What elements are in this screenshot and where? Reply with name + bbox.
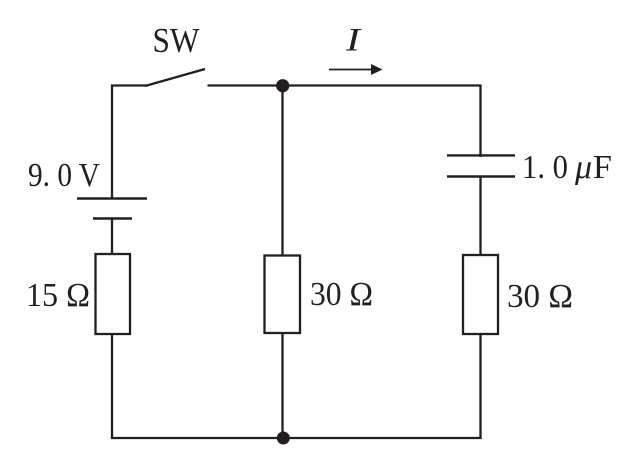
svg-text:F: F <box>593 149 612 186</box>
wire capacitor to resistor R3 <box>479 177 481 257</box>
svg-text:30 Ω: 30 Ω <box>507 278 573 315</box>
capacitor C 1.0μF plates <box>447 155 515 176</box>
svg-text:15 Ω: 15 Ω <box>26 277 90 314</box>
resistor R2 30Ω middle <box>265 256 301 334</box>
svg-text:9. 0 V: 9. 0 V <box>28 157 100 194</box>
svg-text:SW: SW <box>153 21 200 60</box>
wire top-left horizontal (left vertical to switch hinge) <box>112 86 146 199</box>
wire middle branch top (junction to R2) <box>281 86 283 257</box>
node top junction <box>276 79 289 92</box>
svg-text:I: I <box>345 23 363 59</box>
node bottom junction <box>277 432 290 445</box>
label 1.0 μF <box>522 149 612 186</box>
wire battery to resistor R1 <box>111 219 113 256</box>
wire R3 bottom to bottom rail <box>479 334 481 439</box>
current arrow I <box>329 64 383 75</box>
wire top horizontal (switch to right corner) <box>208 86 481 158</box>
wire R1 bottom to bottom rail <box>111 334 113 439</box>
resistor R3 30Ω right <box>463 255 498 334</box>
wire bottom rail <box>111 437 482 439</box>
battery 9.0V short plate (-) <box>93 217 132 219</box>
svg-text:μ: μ <box>574 149 592 186</box>
switch SW (arm blade) <box>145 69 205 86</box>
wire R2 bottom to bottom rail <box>281 333 283 439</box>
svg-text:30 Ω: 30 Ω <box>310 276 373 313</box>
resistor R1 15Ω <box>96 254 131 334</box>
battery 9.0V long plate (+) <box>77 197 147 199</box>
svg-text:1. 0: 1. 0 <box>522 149 568 186</box>
